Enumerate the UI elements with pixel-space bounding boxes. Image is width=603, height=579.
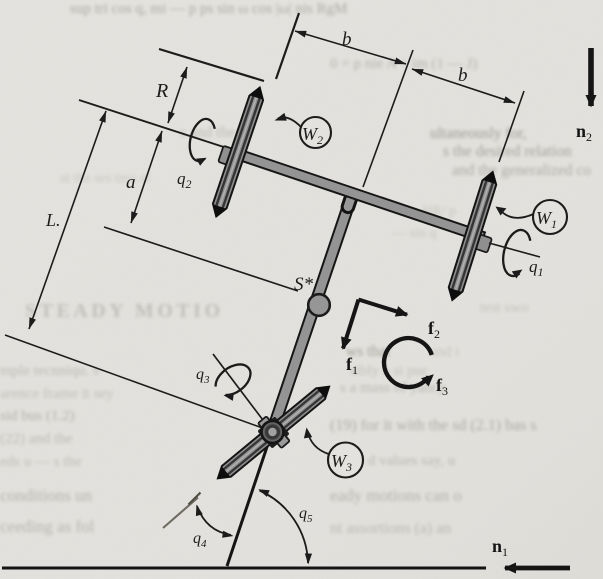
q5 arc	[260, 491, 309, 564]
extension line b-right (above W1)	[499, 91, 524, 162]
svg-text:s and the: s and the	[180, 124, 235, 141]
svg-text:conditions un: conditions un	[0, 486, 93, 505]
svg-text:(19) for it with the sd (2.1): (19) for it with the sd (2.1) bas s	[330, 417, 537, 434]
svg-text:s the desired relation: s the desired relation	[443, 143, 572, 160]
wheel W2 (edge-on disk)	[209, 84, 267, 220]
svg-text:and the generalized co: and the generalized co	[452, 162, 591, 179]
W1 leader	[501, 211, 534, 218]
W2 axle boss	[218, 146, 237, 167]
extension line b-middle (above junction)	[363, 50, 413, 187]
S* ball	[308, 294, 330, 316]
W3 label circle	[328, 443, 363, 478]
svg-text:STEADY MOTIO: STEADY MOTIO	[25, 300, 224, 322]
floor line	[2, 567, 486, 570]
svg-text:L.: L.	[45, 210, 61, 230]
svg-text:sup tri cos q, mi — p ps sin ω: sup tri cos q, mi — p ps sin ω cos |ω| n…	[70, 1, 347, 17]
svg-text:nt assortions (a) an: nt assortions (a) an	[330, 520, 451, 537]
W1 label circle	[533, 200, 567, 234]
dimension R	[168, 67, 187, 123]
f1 arrow	[343, 300, 359, 349]
svg-text:a: a	[126, 172, 136, 193]
rotation arrow q1	[499, 227, 533, 278]
dimension labels	[45, 29, 468, 230]
dimension a	[131, 131, 162, 223]
extension line B (through W2 wheel top tip)	[159, 49, 264, 81]
leg	[227, 432, 272, 566]
extension line D (through bottom hub)	[5, 335, 268, 430]
svg-text:(22) and the: (22) and the	[0, 431, 73, 447]
svg-text:sid bus (1.2): sid bus (1.2)	[0, 408, 75, 424]
q4 reference line (gray)	[163, 498, 198, 529]
W2 leader	[278, 117, 301, 127]
svg-text:at the ses tmu el: at the ses tmu el	[60, 171, 150, 186]
svg-text:— sin q: — sin q	[391, 226, 436, 241]
svg-text:eds u — s the: eds u — s the	[0, 454, 82, 470]
wheel W3 (edge-on disk)	[213, 380, 335, 484]
f2 arrow	[359, 300, 408, 315]
svg-text:S*: S*	[294, 274, 314, 295]
dimension b2	[412, 69, 515, 103]
svg-text:b: b	[458, 65, 468, 86]
q4 tick	[189, 493, 201, 505]
svg-text:eady motions can o: eady motions can o	[330, 486, 462, 505]
dimension L	[29, 111, 106, 329]
extension line A (crossbar axis extended left)	[79, 100, 233, 150]
svg-text:R: R	[155, 80, 168, 102]
W1 axle line	[489, 243, 540, 257]
extension line C (through S* level)	[104, 227, 298, 291]
f3 circular arrow	[384, 338, 432, 387]
crossbar	[232, 148, 485, 242]
W2 label circle	[300, 117, 331, 148]
svg-text:ultaneously for,: ultaneously for,	[430, 125, 527, 142]
svg-text:b: b	[342, 29, 352, 50]
svg-text:and t: and t	[430, 344, 460, 360]
svg-text:test swo: test swo	[480, 300, 529, 316]
rotation arrow q2	[186, 116, 217, 163]
svg-text:mple tecnniqu. s: mple tecnniqu. s	[0, 363, 99, 379]
hub gimbal plate	[254, 412, 293, 453]
n2 arrow	[588, 48, 594, 106]
extension line b-left (above W2)	[276, 13, 299, 79]
hub rings	[262, 421, 284, 443]
svg-text:ceeding as fol: ceeding as fol	[0, 517, 95, 536]
W1 axle boss	[475, 234, 492, 252]
q3 axis line	[213, 354, 272, 432]
W3 leader	[308, 431, 329, 454]
rotation arrow q3	[211, 358, 256, 400]
n1 arrow	[505, 566, 570, 571]
svg-text:arence frame it sey: arence frame it sey	[0, 386, 114, 402]
shaft	[267, 189, 359, 433]
wheel W1 (edge-on disk)	[445, 169, 500, 303]
dimension b1	[295, 31, 406, 64]
q4 arc	[197, 506, 231, 535]
